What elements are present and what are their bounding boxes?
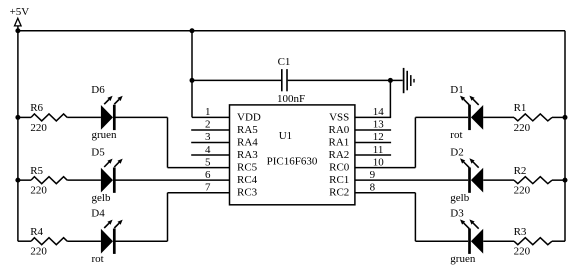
- svg-text:220: 220: [30, 122, 47, 134]
- junction left rail row A: [15, 115, 20, 120]
- wire to pin 5 RC5: [168, 167, 230, 169]
- wire left rail: [17, 31, 19, 241]
- wire bend down to row C: [414, 193, 416, 242]
- svg-text:9: 9: [370, 169, 376, 181]
- svg-text:RA3: RA3: [237, 149, 258, 161]
- svg-text:7: 7: [205, 181, 211, 193]
- svg-text:R5: R5: [30, 165, 43, 177]
- wire pin 13 stub: [355, 129, 391, 131]
- wire D4 cathode to bend: [115, 240, 168, 242]
- svg-text:220: 220: [30, 185, 47, 197]
- emission arrows D4: [104, 220, 123, 228]
- wire R3 to right rail: [552, 240, 565, 242]
- wire bend down to pin 5 level: [167, 117, 169, 167]
- emission arrows D2: [460, 158, 479, 167]
- svg-text:8: 8: [370, 181, 376, 193]
- wire pin 2 stub: [191, 129, 229, 131]
- wire top +5V rail: [18, 30, 565, 32]
- wire VSS node riser down: [389, 80, 391, 117]
- emission arrows D6: [104, 96, 123, 104]
- IC U1 box: [230, 105, 355, 205]
- wire D5 cathode to pin 6 RC4: [115, 179, 230, 181]
- wire to D3 cathode: [415, 240, 468, 242]
- wire D2 anode to R2: [483, 179, 514, 181]
- svg-text:RC5: RC5: [237, 162, 258, 174]
- junction top rail / VDD riser: [190, 28, 195, 33]
- svg-text:RA4: RA4: [237, 137, 258, 149]
- svg-text:rot: rot: [92, 253, 104, 265]
- svg-text:RC4: RC4: [237, 174, 258, 186]
- svg-text:5: 5: [205, 156, 211, 168]
- svg-text:RA5: RA5: [237, 124, 258, 136]
- junction right rail row B: [563, 178, 568, 183]
- wire pin 4 stub: [191, 154, 229, 156]
- wire left rail to R4: [18, 240, 31, 242]
- wire VDD riser vertical: [191, 31, 193, 118]
- emission arrows D3: [460, 219, 479, 228]
- junction right rail row A: [563, 115, 568, 120]
- wire D6 cathode to bend: [115, 116, 168, 118]
- resistor R3: [514, 238, 552, 245]
- svg-text:PIC16F630: PIC16F630: [267, 156, 318, 168]
- svg-text:gruen: gruen: [450, 253, 476, 265]
- svg-text:+5V: +5V: [10, 6, 30, 18]
- junction C1 left node: [190, 78, 195, 83]
- wire R4 to D4: [67, 240, 101, 242]
- LED D2: [470, 167, 484, 192]
- LED D6: [101, 105, 114, 130]
- svg-text:U1: U1: [279, 130, 292, 142]
- resistor R6: [31, 114, 67, 121]
- svg-text:R3: R3: [514, 226, 527, 238]
- svg-text:gruen: gruen: [92, 129, 118, 141]
- svg-text:D5: D5: [91, 147, 105, 159]
- wire pin 8 RC2 stub: [355, 192, 416, 194]
- capacitor C1: [282, 69, 287, 91]
- svg-text:220: 220: [514, 122, 531, 134]
- emission arrows D1: [460, 96, 479, 105]
- wire pin 3 stub: [191, 142, 229, 144]
- wire to pin 7 RC3: [168, 192, 230, 194]
- svg-text:10: 10: [373, 156, 385, 168]
- wire pin 12 stub: [355, 142, 391, 144]
- wire R5 to D5: [67, 179, 101, 181]
- wire pin 10 RC0 stub: [355, 167, 416, 169]
- wire R2 to right rail: [552, 179, 565, 181]
- wire right rail: [564, 31, 566, 241]
- svg-text:R1: R1: [514, 102, 527, 114]
- emission arrows D5: [104, 159, 123, 167]
- svg-text:R4: R4: [30, 226, 43, 238]
- svg-text:gelb: gelb: [92, 192, 111, 204]
- LED D1: [470, 105, 484, 130]
- wire D1 anode to R1: [483, 116, 514, 118]
- svg-text:220: 220: [514, 246, 531, 258]
- resistor R2: [514, 177, 552, 184]
- wire left rail to R6: [18, 116, 31, 118]
- svg-text:RA1: RA1: [329, 137, 350, 149]
- svg-text:D6: D6: [91, 84, 105, 96]
- junction C1 right / VSS node: [388, 78, 393, 83]
- wire bend up to pin 7 level: [167, 193, 169, 242]
- svg-text:RC2: RC2: [329, 187, 349, 199]
- wire D3 anode to R3: [483, 240, 514, 242]
- LED D4: [101, 229, 114, 254]
- wire left rail to R5: [18, 179, 31, 181]
- wire bend up to row A: [414, 117, 416, 167]
- svg-text:6: 6: [205, 169, 211, 181]
- svg-text:VSS: VSS: [329, 111, 349, 123]
- svg-text:D4: D4: [91, 208, 105, 220]
- junction top-left: [15, 28, 20, 33]
- svg-text:11: 11: [373, 144, 384, 156]
- wire node to C1 left plate: [192, 79, 281, 81]
- svg-text:RC1: RC1: [329, 174, 349, 186]
- svg-text:100nF: 100nF: [277, 93, 305, 105]
- wire VSS node to ground: [390, 79, 402, 81]
- svg-text:RA0: RA0: [329, 124, 350, 136]
- LED D5: [101, 167, 114, 192]
- svg-text:2: 2: [205, 119, 211, 131]
- resistor R5: [31, 177, 67, 184]
- power +5V supply symbol: [15, 18, 22, 30]
- svg-text:C1: C1: [278, 56, 291, 68]
- svg-text:1: 1: [205, 106, 211, 118]
- resistor R1: [514, 114, 552, 121]
- LED D3: [470, 229, 484, 254]
- svg-text:D1: D1: [450, 84, 463, 96]
- svg-text:220: 220: [514, 185, 531, 197]
- svg-text:3: 3: [205, 131, 211, 143]
- wire VDD riser to pin 1: [192, 116, 230, 118]
- svg-text:220: 220: [30, 246, 47, 258]
- svg-text:gelb: gelb: [450, 192, 469, 204]
- svg-text:12: 12: [373, 131, 384, 143]
- wire R1 to right rail: [552, 116, 565, 118]
- wire pin 14 VSS stub: [355, 116, 391, 118]
- svg-text:RC3: RC3: [237, 187, 258, 199]
- wire to D1 cathode: [415, 116, 468, 118]
- wire C1 right plate to VSS node: [288, 79, 391, 81]
- svg-text:13: 13: [373, 119, 385, 131]
- wire pin 11 stub: [355, 154, 391, 156]
- svg-text:R2: R2: [514, 165, 527, 177]
- wire pin 9 RC1 to D2 cathode: [355, 179, 468, 181]
- svg-text:rot: rot: [450, 129, 462, 141]
- svg-text:RC0: RC0: [329, 162, 350, 174]
- svg-text:RA2: RA2: [329, 149, 350, 161]
- junction left rail row B: [15, 178, 20, 183]
- svg-text:VDD: VDD: [237, 111, 261, 123]
- svg-text:14: 14: [373, 106, 385, 118]
- svg-text:D3: D3: [450, 208, 464, 220]
- wire R6 to D6: [67, 116, 101, 118]
- svg-text:4: 4: [205, 144, 211, 156]
- ground symbol: [404, 68, 414, 93]
- svg-text:R6: R6: [30, 102, 43, 114]
- resistor R4: [31, 238, 67, 245]
- svg-text:D2: D2: [450, 147, 463, 159]
